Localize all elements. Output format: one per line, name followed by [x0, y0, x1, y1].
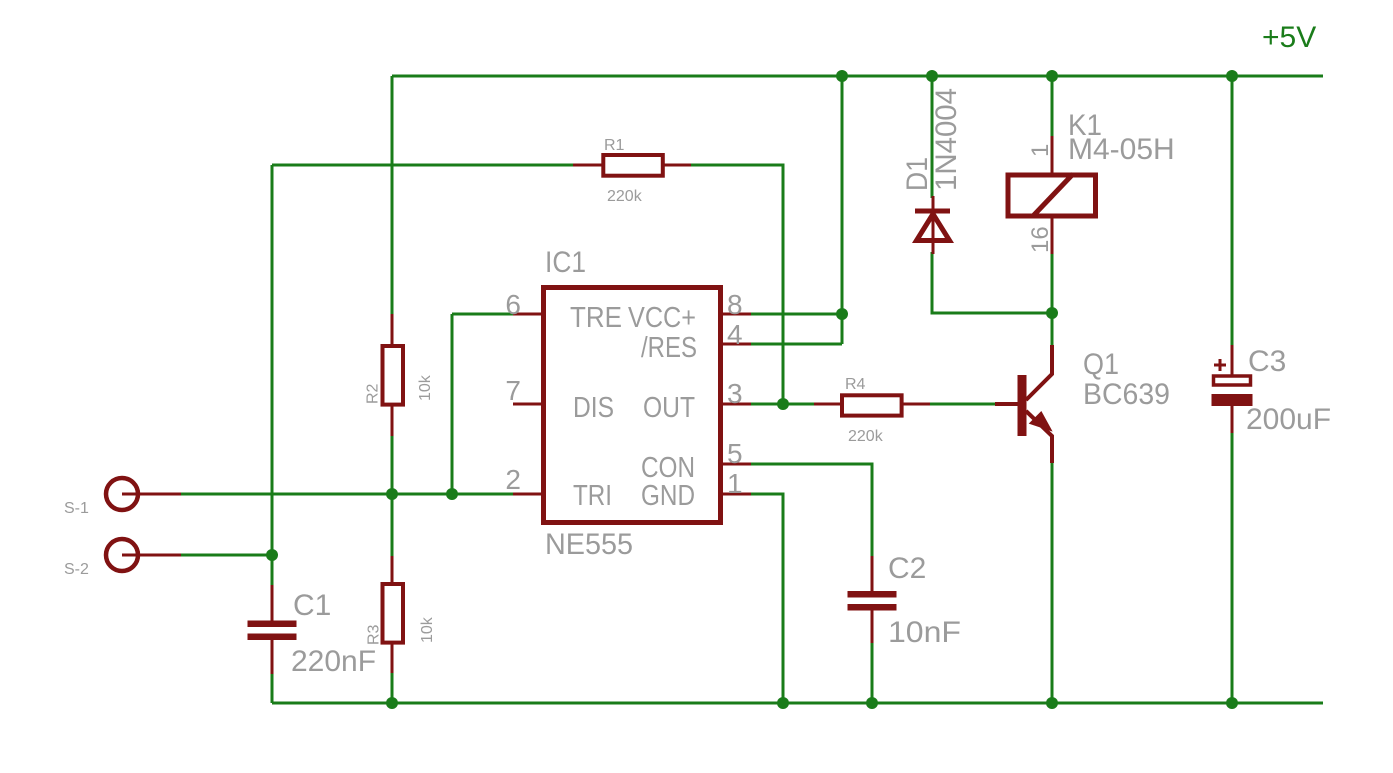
svg-text:NE555: NE555 — [545, 528, 633, 561]
svg-text:S-1: S-1 — [64, 500, 89, 517]
wire C3 top from rail — [1231, 76, 1234, 347]
node junction top rail x=1232 — [1226, 70, 1238, 82]
wire relay pin16 to node — [1051, 252, 1054, 313]
capacitor C1 plate top — [248, 621, 297, 628]
transistor Q1 collector lead — [1026, 345, 1052, 400]
node junction bottom rail x=1052 — [1046, 697, 1058, 709]
wire R2 bottom to TRI row — [391, 434, 394, 494]
svg-text:200uF: 200uF — [1246, 403, 1331, 436]
resistor R4 pin stub right — [902, 403, 930, 406]
wire relay pin1 from rail — [1051, 76, 1054, 138]
wire pin3 OUT to R4 — [750, 403, 815, 406]
capacitor C1 plate bottom — [248, 634, 297, 641]
transistor Q1 emitter arrow — [1032, 414, 1050, 430]
svg-text:2: 2 — [505, 464, 521, 495]
wire R1 right to vertical drop at x=783 — [690, 165, 783, 404]
wire +5V top rail — [392, 75, 1323, 78]
wire C1 bottom to bottom rail — [271, 672, 274, 703]
svg-text:M4-05H: M4-05H — [1068, 133, 1175, 166]
wire node to Q1 collector — [1051, 313, 1054, 347]
wire pin1 GND down to bottom rail — [750, 494, 783, 703]
node junction top rail x=842 — [836, 70, 848, 82]
connector pad S-1 circle — [106, 478, 138, 510]
transistor Q1 emitter lead — [1026, 411, 1052, 463]
svg-text:Q1: Q1 — [1083, 348, 1119, 381]
capacitor C3 plate top outline — [1214, 376, 1251, 385]
wire bottom rail — [272, 702, 1323, 705]
capacitor C2 pin stub top — [871, 556, 874, 592]
diode D1 cathode bar — [915, 209, 950, 214]
IC IC1 (NE555) pin 2 stub — [513, 493, 543, 496]
wire left vertical from top rail down to R2 — [391, 76, 394, 316]
connector pad S-2 pin line — [122, 554, 181, 557]
relay K1 coil box — [1008, 175, 1096, 216]
IC IC1 (NE555) pin 3 stub — [721, 403, 751, 406]
node junction top rail x=1052 — [1046, 70, 1058, 82]
node junction bottom rail x=1232 — [1226, 697, 1238, 709]
relay K1 pin 1 stub — [1051, 136, 1054, 174]
IC IC1 (NE555) pin 5 stub — [721, 463, 751, 466]
wire pin4 to vertical — [750, 343, 842, 346]
wire left vertical x=272 from feedback down to S-2 node and C1 — [271, 165, 274, 587]
resistor R3 pin stub top — [391, 556, 394, 585]
resistor R2 pin stub top — [391, 314, 394, 347]
wire S-2 row — [181, 554, 272, 557]
resistor R2 body — [383, 346, 404, 405]
svg-text:C2: C2 — [888, 552, 926, 585]
svg-text:C1: C1 — [293, 589, 331, 622]
node junction TRI x=452 — [446, 488, 458, 500]
svg-text:6: 6 — [505, 289, 521, 320]
svg-text:R4: R4 — [845, 376, 866, 393]
svg-text:10k: 10k — [419, 616, 436, 643]
svg-text:1N4004: 1N4004 — [930, 88, 963, 191]
node junction top rail x=932 — [926, 70, 938, 82]
connector pad S-2 circle — [106, 539, 138, 571]
resistor R1 body — [603, 155, 663, 176]
relay K1 pin 16 stub — [1051, 217, 1054, 254]
IC IC1 (NE555) pin 8 stub — [721, 313, 751, 316]
wire pin8 to junction — [750, 313, 842, 316]
svg-text:220k: 220k — [848, 428, 884, 445]
transistor Q1 base bar — [1018, 375, 1027, 436]
diode D1 pin line vertical — [932, 196, 935, 254]
svg-text:7: 7 — [505, 375, 521, 406]
node junction D1/relay/Q1 — [1046, 307, 1058, 319]
resistor R3 pin stub bottom — [391, 644, 394, 673]
svg-text:IC1: IC1 — [545, 246, 586, 279]
wire pin6 net vertical — [451, 314, 454, 494]
capacitor C1 pin stub top — [271, 585, 274, 621]
wire pin5 to C2 — [750, 464, 872, 558]
relay K1 coil diagonal — [1033, 174, 1073, 216]
svg-text:220k: 220k — [607, 188, 643, 205]
resistor R1 pin stub left — [573, 164, 603, 167]
wire feedback horizontal to R1 — [272, 164, 573, 167]
node junction OUT x=783 — [777, 398, 789, 410]
svg-text:GND: GND — [641, 480, 695, 512]
node junction TRI x=392 — [386, 488, 398, 500]
IC IC1 (NE555) NE555 body — [544, 288, 721, 523]
svg-text:TRI: TRI — [573, 480, 612, 512]
svg-text:3: 3 — [727, 378, 743, 409]
resistor R4 pin stub left — [814, 403, 842, 406]
svg-text:DIS: DIS — [573, 392, 614, 424]
node junction bottom rail x=783 — [777, 697, 789, 709]
svg-text:R3: R3 — [366, 624, 383, 645]
capacitor C3 plus sign — [1214, 359, 1226, 371]
capacitor C1 pin stub bottom — [271, 639, 274, 674]
svg-text:/RES: /RES — [641, 332, 697, 364]
svg-text:+5V: +5V — [1262, 21, 1316, 54]
svg-text:S-2: S-2 — [64, 561, 89, 578]
svg-text:R1: R1 — [604, 137, 625, 154]
IC IC1 (NE555) pin 6 stub — [513, 313, 543, 316]
resistor R4 body — [842, 395, 902, 415]
capacitor C2 plate top — [848, 591, 897, 598]
wire TRI row to R3 top — [391, 494, 394, 558]
diode D1 triangle — [917, 214, 950, 241]
svg-text:16: 16 — [1027, 226, 1054, 253]
svg-text:R2: R2 — [365, 383, 382, 404]
svg-text:1: 1 — [1027, 144, 1054, 157]
svg-text:VCC+: VCC+ — [628, 302, 696, 334]
svg-text:4: 4 — [727, 319, 743, 350]
capacitor C3 plate bottom filled — [1212, 394, 1253, 406]
capacitor C3 pin stub top — [1231, 345, 1234, 376]
svg-text:OUT: OUT — [643, 392, 695, 424]
IC IC1 (NE555) pin 1 stub — [721, 493, 751, 496]
transistor Q1 base stub — [995, 402, 1018, 406]
wire pin6 net horizontal — [452, 313, 513, 316]
wire vertical x=842 top rail to pin4 — [841, 76, 844, 344]
IC IC1 (NE555) pin 7 stub — [513, 403, 543, 406]
wire S-1 row to pin2 — [181, 493, 513, 496]
svg-text:220nF: 220nF — [291, 645, 376, 678]
node junction pin8 x=842 — [836, 308, 848, 320]
svg-text:10k: 10k — [417, 374, 434, 401]
capacitor C2 pin stub bottom — [871, 610, 874, 643]
svg-text:8: 8 — [727, 289, 743, 320]
svg-text:TRE: TRE — [570, 302, 622, 334]
wire Q1 emitter to bottom rail — [1051, 461, 1054, 703]
svg-text:5: 5 — [727, 438, 743, 469]
node junction bottom rail x=392 — [386, 697, 398, 709]
svg-text:1: 1 — [727, 468, 743, 499]
wire R3 bottom to bottom rail — [391, 671, 394, 703]
wire R4 to Q1 base — [929, 403, 995, 406]
connector pad S-1 pin line — [122, 493, 181, 496]
svg-text:C3: C3 — [1248, 345, 1286, 378]
capacitor C2 plate bottom — [848, 604, 897, 611]
resistor R1 pin stub right — [662, 164, 691, 167]
wire D1 bottom to relay/Q1 node — [932, 252, 1052, 313]
wire C3 bottom to bottom rail — [1231, 431, 1234, 703]
wire C2 bottom to bottom rail — [871, 641, 874, 703]
capacitor C3 pin stub bottom — [1231, 406, 1234, 433]
IC IC1 (NE555) pin 4 stub — [721, 343, 751, 346]
wire D1 top from rail — [931, 76, 934, 198]
node junction S-2 x=272 — [266, 549, 278, 561]
resistor R3 body — [383, 584, 404, 643]
svg-text:10nF: 10nF — [888, 616, 961, 649]
resistor R2 pin stub bottom — [391, 404, 394, 436]
node junction bottom rail x=872 — [866, 697, 878, 709]
svg-text:BC639: BC639 — [1083, 378, 1170, 411]
